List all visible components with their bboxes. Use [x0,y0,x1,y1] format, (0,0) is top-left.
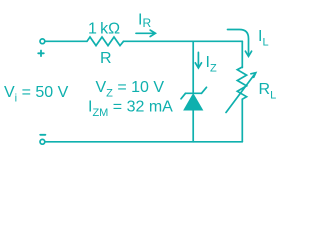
minus sign [40,134,45,136]
plus sign [38,51,44,57]
current arrow I_R [136,30,155,36]
svg-text:IR: IR [138,12,151,31]
wire top-left to resistor [46,40,87,42]
wire right branch top segment [241,41,243,67]
current arrow I_L (curved) [228,30,252,57]
svg-text:RL: RL [259,81,277,102]
zener diode triangle (anode) [184,94,203,110]
terminal - (bottom-left input terminal circle) [40,139,45,144]
wire right branch bottom segment [241,99,243,142]
svg-text:R: R [100,50,112,67]
svg-text:Vi = 50 V: Vi = 50 V [4,84,69,105]
svg-text:VZ = 10 V: VZ = 10 V [96,79,165,100]
wire resistor to top-right corner [124,40,243,42]
current arrow I_Z (down) [195,52,201,68]
resistor RL (vertical zigzag, variable) [237,67,246,99]
svg-text:IZM = 32 mA: IZM = 32 mA [88,99,173,120]
bottom wire [45,141,242,143]
wire zener branch lower [192,110,194,142]
wire zener branch upper [192,41,194,93]
terminal + (top-left input terminal circle) [40,39,45,44]
variable resistor arrow through RL [226,73,256,113]
svg-text:IZ: IZ [206,54,217,75]
resistor R (1 kOhm zigzag) [87,37,124,46]
svg-text:IL: IL [258,28,269,49]
svg-text:1 kΩ: 1 kΩ [88,21,120,38]
zener diode D (bar with bent ends) [181,87,207,99]
